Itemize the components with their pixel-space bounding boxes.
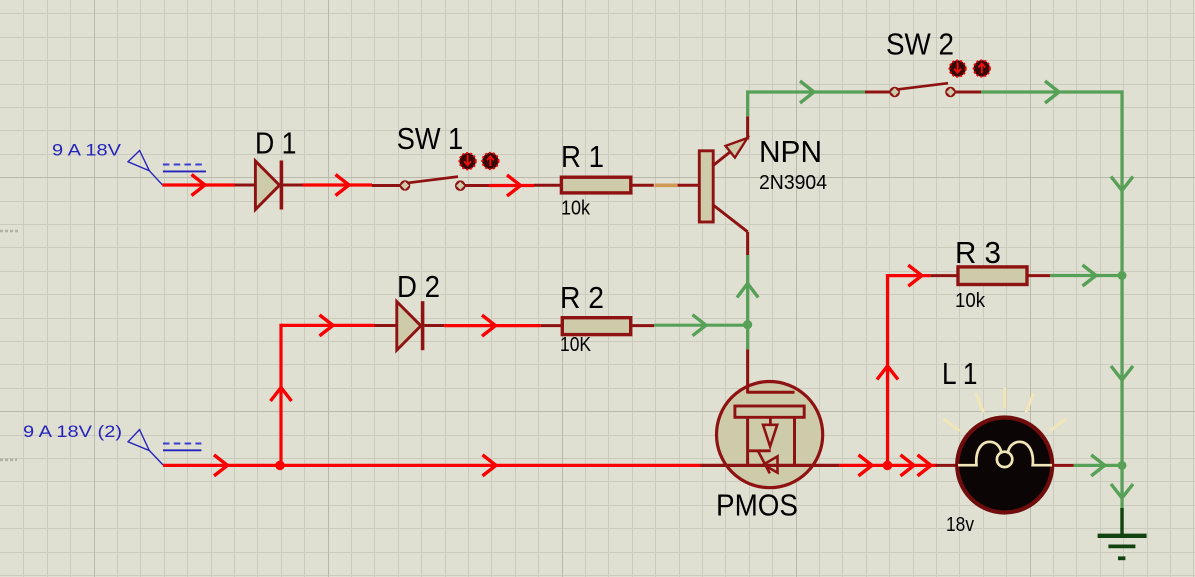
svg-text:NPN: NPN [759,134,822,169]
svg-text:10K: 10K [560,334,592,356]
svg-text:D 1: D 1 [255,126,297,161]
diode D2 [375,301,445,350]
current arrow on wire SW1-R1 [507,175,521,196]
current arrow after junction C (2) [918,455,932,476]
SW2 actuator button up [974,60,990,76]
svg-text:18v: 18v [946,514,974,536]
terminal P1 (input terminal, blue) [128,151,206,185]
wire: riser from junction C up to R3 (red) [886,274,889,465]
resistor R2 10K [541,318,654,335]
wire: right vertical bus (green) [1120,92,1123,511]
svg-text:D 2: D 2 [397,269,440,304]
current arrow down (lower) [1111,484,1133,498]
wire: D2 cathode to R2 (red) [444,324,540,327]
wire: R1 to NPN base (floating colour, tan) [655,184,678,188]
junction node A [743,320,752,329]
SW2 actuator button down [949,60,965,76]
current arrow mid bottom rail [483,455,497,476]
current arrow up on riser [271,388,292,402]
terminal P2 (input terminal, blue) [128,430,201,465]
current arrow up to NPN [737,284,758,298]
current arrow on wire D2-R2 [482,315,496,336]
diode D1 [235,161,303,210]
current arrow on wire corner-D2 [320,315,334,336]
current arrow on wire R2-A [693,315,707,336]
svg-text:R 1: R 1 [561,139,604,174]
node: left edge ruler mark 2 [0,458,17,461]
wire: D1 cathode to SW1 (red) [303,183,373,186]
SW1 actuator button down [459,153,475,169]
junction node C [883,461,893,471]
svg-text:R 3: R 3 [955,235,1001,270]
SW1 actuator button up [482,153,498,169]
junction node at L1 / right bus [1118,461,1127,470]
svg-text:9 A 18V (2): 9 A 18V (2) [23,422,122,441]
resistor R1 10k [534,177,654,193]
transistor Q1 NPN 2N3904 [678,116,748,255]
svg-text:10k: 10k [561,198,591,220]
svg-text:L 1: L 1 [942,356,978,391]
wire: R2 to junction node A (green) [654,324,748,327]
current arrow P2 wire [214,455,228,476]
wire: node A down to PMOS gate (green) [746,325,749,350]
svg-text:SW 2: SW 2 [886,27,954,62]
current arrow down (middle) [1111,366,1133,380]
wire: SW2 to top-right corner (green) [981,90,1124,93]
lamp rays [944,389,1065,430]
wire: vertical riser from bottom rail to D2 row (red) [279,324,282,466]
lamp L1 [936,418,1074,513]
wire: corner to R3 (red) [888,274,931,277]
wire: NPN top to corner (green) [746,92,749,116]
wire: SW1 to R1 (red) [489,184,534,187]
transistor Q2 PMOS [701,349,840,487]
svg-text:2N3904: 2N3904 [759,172,827,194]
ground symbol [1098,508,1147,558]
wire: lamp to right bus (green) [1074,464,1122,467]
node: left edge ruler mark 1 [0,230,19,233]
svg-text:SW 1: SW 1 [397,121,464,156]
current arrow up riser C [877,366,898,380]
current arrow lamp-bus [1091,455,1105,476]
junction node B (riser tap) [275,461,285,471]
current arrow on wire P1-D1 [192,175,206,196]
wire: NPN collector down to node A (green) [746,255,749,325]
wire: corner to D2 anode (red) [281,324,375,327]
current arrow R3-bus [1083,265,1097,286]
resistor R3 10k [930,267,1050,285]
current arrow on wire to SW2 [800,81,814,103]
current arrow on wire SW2-corner [1045,81,1059,103]
current arrow after junction C (1) [901,455,915,476]
wire: R3 to right bus (green) [1050,274,1122,277]
svg-text:9 A 18V: 9 A 18V [52,141,122,160]
current arrow down (upper) [1111,177,1133,191]
svg-text:10k: 10k [955,290,986,312]
wire: corner to SW2 (green) [746,90,865,93]
wire: PMOS drain to junction C (red) [839,464,937,467]
current arrow before junction C [859,455,873,476]
wire: terminal P1 to D1 anode (red) [162,183,234,186]
switch SW1 [372,177,489,191]
svg-text:R 2: R 2 [560,280,604,315]
current arrow on wire D1-SW1 [336,175,350,196]
current arrow to R3 [908,265,922,286]
wire: terminal P2 to PMOS source (red) [163,464,700,467]
svg-text:PMOS: PMOS [716,488,798,523]
switch SW2 [865,83,981,97]
junction node at R3 / right bus [1118,271,1127,280]
